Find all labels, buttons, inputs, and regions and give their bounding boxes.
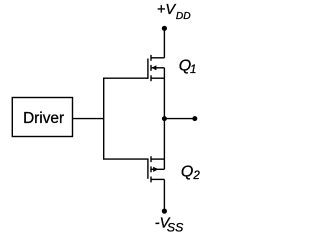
svg-text:SS: SS <box>167 220 184 234</box>
svg-text:Q: Q <box>181 163 193 180</box>
svg-text:+V: +V <box>157 2 176 18</box>
svg-text:1: 1 <box>190 64 196 76</box>
svg-text:2: 2 <box>192 170 200 182</box>
svg-text:DD: DD <box>176 11 191 22</box>
svg-text:Driver: Driver <box>23 110 64 127</box>
